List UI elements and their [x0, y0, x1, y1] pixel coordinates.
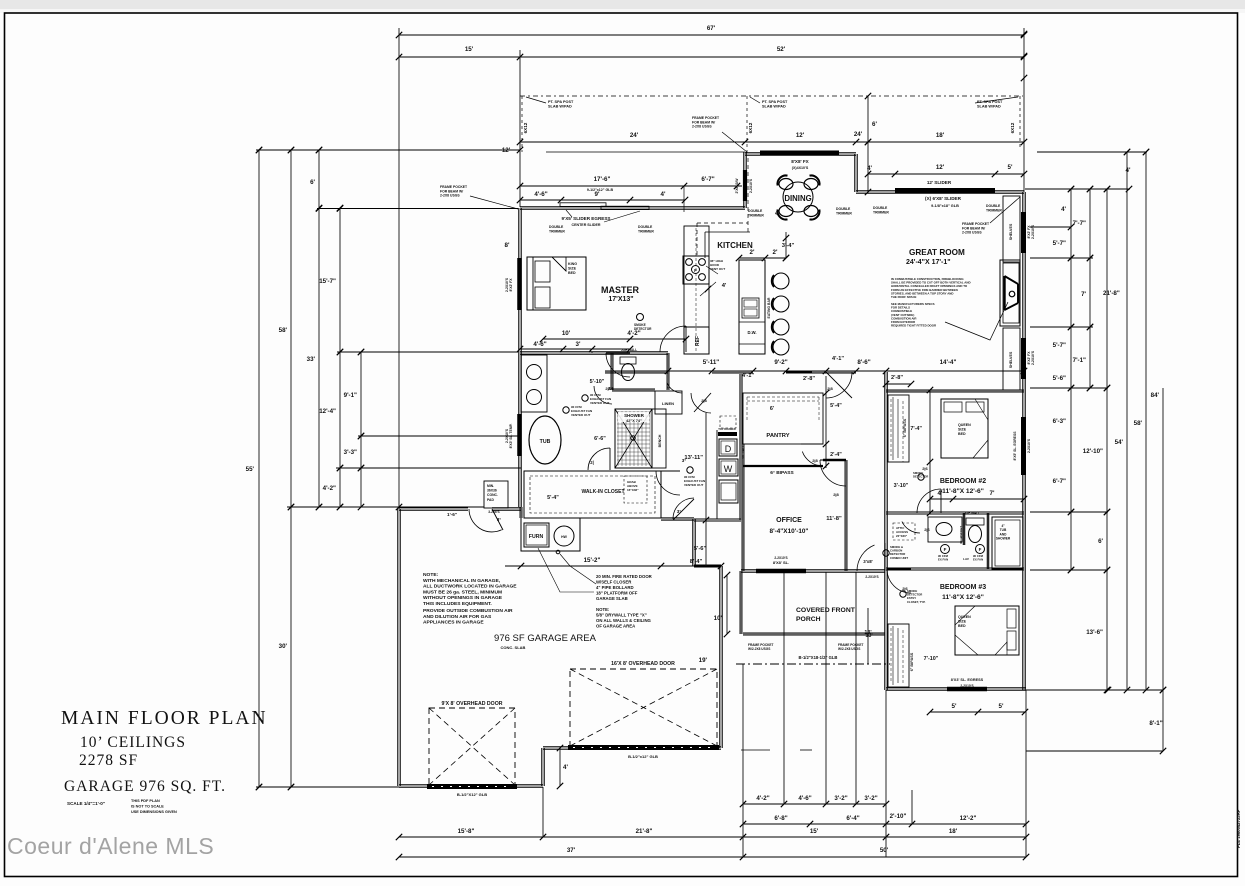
right dim extension y327 [1030, 326, 1093, 328]
svg-text:6° BIPASS: 6° BIPASS [903, 418, 907, 437]
svg-text:3-2X6'S: 3-2X6'S [488, 510, 499, 514]
svg-text:5'-6": 5'-6" [694, 546, 707, 552]
svg-text:5'-11": 5'-11" [703, 359, 720, 366]
garage house wall east of closet [693, 519, 695, 566]
svg-text:2'-8": 2'-8" [891, 375, 903, 381]
porch steps [741, 749, 770, 751]
left dim extension y468 [336, 467, 521, 469]
svg-text:8': 8' [505, 242, 510, 249]
garage step wall [542, 748, 544, 786]
dim 7-4 bed2 [929, 390, 931, 513]
left dim 58 ft / 30 ft [290, 150, 292, 787]
fireplace [1000, 260, 1020, 326]
svg-text:MUST BE 26 ga. STEEL, MINI: MUST BE 26 ga. STEEL, MINIMUM [423, 589, 502, 595]
right dim extension y189 [1025, 188, 1130, 190]
svg-text:9'X 8' OVERHEAD DOOR: 9'X 8' OVERHEAD DOOR [442, 701, 503, 707]
svg-text:4': 4' [1061, 206, 1066, 213]
svg-text:PLE 1960042723AP: PLE 1960042723AP [1236, 809, 1241, 848]
svg-text:7': 7' [1081, 291, 1086, 298]
queen bed 2 [941, 399, 988, 458]
svg-text:24'-4"X 17'-1": 24'-4"X 17'-1" [906, 259, 951, 266]
svg-text:11'-8"X 12'-6": 11'-8"X 12'-6" [942, 488, 984, 495]
svg-text:KING: KING [568, 262, 577, 266]
dim 13-11 laundry [705, 413, 707, 566]
right dim col 1163 84ft [1162, 388, 1164, 751]
svg-text:4': 4' [938, 490, 943, 497]
hall door arc bed wing [826, 372, 852, 398]
svg-text:WALK-IN CLOSET: WALK-IN CLOSET [581, 489, 624, 495]
svg-text:1'-6": 1'-6" [447, 512, 457, 517]
svg-text:HW: HW [561, 535, 567, 539]
bottom porch dims row1 [743, 803, 886, 805]
overhead door 9x8 [429, 708, 515, 785]
svg-text:NOTE:: NOTE: [423, 572, 439, 578]
svg-text:7'-1": 7'-1" [1073, 357, 1086, 364]
svg-text:THIS INCLUDES EQUIPMENT.: THIS INCLUDES EQUIPMENT. [423, 601, 492, 607]
right dim extension y690 [1026, 689, 1163, 691]
svg-text:BEDROOM #3: BEDROOM #3 [940, 584, 986, 591]
svg-text:58': 58' [279, 327, 288, 334]
svg-text:DINING: DINING [784, 194, 811, 203]
svg-text:LAV: LAV [963, 557, 969, 561]
svg-text:6° BIPASS: 6° BIPASS [910, 652, 914, 671]
svg-text:PANTRY: PANTRY [766, 433, 789, 439]
svg-text:6X12: 6X12 [523, 122, 528, 133]
right dim col 1107 [1106, 189, 1108, 690]
dim 2-8 bed2 north [886, 383, 911, 385]
garage north wall [399, 508, 468, 510]
king bed [527, 257, 586, 310]
svg-text:4'-6": 4'-6" [798, 795, 811, 802]
window 9x5 slider master rear [560, 203, 606, 207]
svg-text:12'-10": 12'-10" [1083, 448, 1103, 455]
svg-text:9-1/8"x18" GLB: 9-1/8"x18" GLB [931, 204, 959, 208]
closet entry door [656, 471, 680, 495]
svg-text:GREAT ROOM: GREAT ROOM [909, 248, 965, 257]
svg-text:SIZE: SIZE [958, 620, 967, 624]
svg-text:5': 5' [1008, 164, 1013, 171]
svg-text:8'X8' FX: 8'X8' FX [791, 159, 809, 164]
window 8x5 egress bed2 [1021, 417, 1026, 475]
svg-text:Coeur d'Alene MLS: Coeur d'Alene MLS [7, 833, 214, 859]
svg-text:3'-10": 3'-10" [894, 483, 909, 489]
svg-text:12': 12' [936, 164, 945, 171]
laundry upper dashes [720, 416, 736, 428]
garage service door [469, 509, 502, 532]
svg-text:21'-8": 21'-8" [636, 828, 653, 835]
svg-text:12' SLIDER: 12' SLIDER [927, 180, 952, 185]
svg-text:6X12: 6X12 [1010, 122, 1015, 133]
svg-text:THIS PDF PLAN: THIS PDF PLAN [131, 799, 160, 803]
smoke detector master [637, 314, 644, 321]
window kitchen jog [743, 170, 747, 201]
svg-text:8'X5' SL. EGRESS: 8'X5' SL. EGRESS [1013, 431, 1017, 461]
svg-text:COVERED FRONT: COVERED FRONT [796, 607, 856, 614]
wall closet outline [524, 471, 661, 518]
svg-text:20 MIN. FIRE RATED DOOR: 20 MIN. FIRE RATED DOOR [596, 574, 653, 579]
svg-text:SHOWER: SHOWER [996, 537, 1011, 541]
window 8x2 fx master west [517, 258, 522, 310]
window 8x8 fx dining [760, 151, 839, 156]
porch beam dashdot [736, 663, 890, 665]
master entry door [660, 326, 686, 352]
svg-text:2-2X10'S: 2-2X10'S [1031, 224, 1035, 239]
right dim extension y512 [1030, 511, 1108, 513]
office walls [742, 444, 744, 571]
eave line above master [546, 151, 745, 153]
wall house east [1023, 192, 1025, 690]
dim 4-6 9 4 master windows [520, 199, 685, 201]
svg-text:5'-4": 5'-4" [830, 403, 842, 409]
porch front edge [743, 633, 885, 635]
office door arc [820, 460, 846, 486]
svg-text:GARAGE 976 SQ. FT.: GARAGE 976 SQ. FT. [64, 778, 226, 795]
svg-text:2-2X10'S: 2-2X10'S [505, 277, 509, 292]
wall kitchen east jog [744, 152, 746, 208]
svg-text:ALL DUCTWORK LOCATED IN GA: ALL DUCTWORK LOCATED IN GARAGE [423, 584, 517, 590]
svg-text:4'-1": 4'-1" [742, 373, 754, 379]
office south wall [741, 570, 885, 572]
svg-text:58': 58' [1134, 420, 1143, 427]
dim 4-6 3 master bath [520, 348, 630, 350]
window 8x8 sl office [756, 569, 806, 574]
svg-text:CLOSET, TYP.: CLOSET, TYP. [907, 600, 926, 604]
svg-text:FURN: FURN [529, 534, 544, 540]
dim 4 7 bed2 south [930, 498, 1024, 500]
garage south wall east [543, 747, 721, 749]
left dim extension y787 [256, 786, 399, 788]
svg-text:4'-2": 4'-2" [323, 485, 336, 492]
furnace [524, 523, 549, 547]
toilet room master [611, 353, 613, 390]
svg-text:REQUIRED TIGHT FITTED DOOR: REQUIRED TIGHT FITTED DOOR [891, 324, 937, 328]
svg-text:12'-4": 12'-4" [319, 408, 336, 415]
post 6x12 mid [746, 96, 748, 155]
svg-text:GARAGE SLAB: GARAGE SLAB [596, 596, 628, 601]
bottom porch dims row2 [743, 823, 1026, 825]
dim 10ft porch [726, 575, 728, 634]
fan circles bath2 [941, 545, 950, 554]
svg-text:8'-1": 8'-1" [1149, 720, 1162, 727]
svg-text:21'-8": 21'-8" [1103, 290, 1120, 297]
svg-text:15'-7": 15'-7" [319, 278, 336, 285]
right dim extension y388 [1030, 387, 1108, 389]
svg-text:PROVIDE OUTSIDE COMBUSTION: PROVIDE OUTSIDE COMBUSTION AIR [423, 608, 513, 614]
svg-text:5': 5' [999, 703, 1004, 710]
tub master [529, 416, 561, 464]
svg-text:19': 19' [699, 657, 708, 664]
svg-text:976 SF GARAGE AREA: 976 SF GARAGE AREA [494, 633, 597, 644]
svg-text:CONC. SLAB: CONC. SLAB [501, 645, 526, 650]
bath2 tub [992, 517, 1023, 569]
wall master west [519, 208, 521, 352]
svg-text:15': 15' [465, 46, 474, 53]
bath door gap arc [606, 353, 630, 377]
left dim extension y208 [317, 208, 518, 210]
svg-text:2-2X10'S: 2-2X10'S [1027, 438, 1031, 453]
svg-text:2-2X10'S: 2-2X10'S [749, 178, 753, 193]
window 8x3 sl temp bath west [517, 414, 522, 456]
svg-text:LINEN: LINEN [662, 401, 674, 406]
svg-text:4" PIPE BOLLARD: 4" PIPE BOLLARD [596, 585, 634, 590]
svg-text:7'-10": 7'-10" [924, 656, 939, 662]
svg-text:EX FAN: EX FAN [938, 558, 948, 562]
left dim 9-1 3-3 [360, 352, 362, 507]
bath2 vanity [928, 517, 962, 542]
svg-text:AND DILUTION AIR FOR GAS: AND DILUTION AIR FOR GAS [423, 614, 492, 620]
svg-text:84': 84' [1151, 392, 1160, 399]
svg-text:EATING BAR: EATING BAR [767, 297, 771, 318]
svg-text:2-2X8 USGS: 2-2X8 USGS [962, 231, 982, 235]
svg-text:2|6: 2|6 [922, 466, 928, 471]
extension line garage west [398, 28, 400, 509]
svg-text:4'-6": 4'-6" [534, 191, 547, 198]
svg-text:36X36: 36X36 [487, 489, 497, 493]
page top gray strip [0, 0, 1245, 9]
svg-text:TRIMMER: TRIMMER [986, 208, 1002, 212]
shelves upper greatroom [1003, 196, 1020, 262]
svg-text:17'-6": 17'-6" [594, 176, 611, 183]
fireplace leader [945, 302, 1008, 340]
wall bath north [520, 352, 668, 354]
refrigerator [684, 327, 709, 354]
dim 15-2 furnace row [505, 565, 721, 567]
svg-text:10': 10' [562, 330, 571, 337]
svg-text:4': 4' [1126, 167, 1131, 174]
laundry tub [719, 480, 738, 503]
svg-text:2-2X10'S: 2-2X10'S [1031, 350, 1035, 365]
furnace alcove walls [521, 518, 580, 551]
svg-text:4': 4' [563, 764, 568, 771]
bed3 north wall [886, 568, 1024, 570]
svg-text:TRIMMER: TRIMMER [549, 229, 565, 233]
svg-text:F: F [979, 547, 982, 552]
wall dining rear north [745, 153, 856, 155]
svg-text:BEDROOM #2: BEDROOM #2 [940, 478, 986, 485]
bar stools [773, 273, 789, 289]
svg-text:BENCH: BENCH [658, 434, 662, 447]
svg-text:TRIMMER: TRIMMER [836, 211, 852, 215]
svg-text:8'X3' SL. EGRESS: 8'X3' SL. EGRESS [951, 678, 984, 682]
dim 67 ft overall top [399, 34, 1024, 36]
svg-text:2-2X8 USGS: 2-2X8 USGS [692, 125, 712, 129]
hall dim row [605, 370, 1024, 372]
svg-text:SHELVES: SHELVES [1009, 351, 1013, 368]
window 8x3 egress bed3 [947, 687, 987, 692]
svg-text:TRIMMER: TRIMMER [748, 213, 764, 217]
svg-text:12'-2": 12'-2" [960, 815, 977, 822]
svg-text:THE ROOF SPACE: THE ROOF SPACE [891, 295, 917, 299]
svg-text:6'-3": 6'-3" [1053, 418, 1066, 425]
svg-text:6'-7": 6'-7" [701, 176, 714, 183]
svg-text:JOE WALL: JOE WALL [621, 348, 637, 352]
door porch to bed wing [857, 545, 875, 571]
svg-text:TRIMMER: TRIMMER [873, 210, 889, 214]
svg-text:15'-2": 15'-2" [584, 557, 601, 564]
svg-text:CENTER SLIDER: CENTER SLIDER [572, 223, 601, 227]
bed3 door [887, 569, 911, 593]
bedroom wing west wall [885, 372, 887, 690]
svg-text:7': 7' [990, 490, 995, 497]
left dim extension y507 [287, 506, 484, 508]
svg-text:3'-2": 3'-2" [834, 795, 847, 802]
dim 15 ft top [399, 56, 520, 58]
left dim extension y352 [337, 351, 518, 353]
svg-text:16'X 8' OVERHEAD DOOR: 16'X 8' OVERHEAD DOOR [611, 661, 675, 667]
svg-text:6': 6' [872, 121, 877, 128]
svg-text:W/2-2X8 USGS: W/2-2X8 USGS [748, 647, 770, 651]
island sink [742, 298, 759, 318]
dining table [783, 182, 813, 212]
svg-text:F: F [944, 547, 947, 552]
svg-text:9'-2": 9'-2" [774, 359, 787, 366]
bottom extension lines [542, 787, 544, 837]
svg-text:2|6: 2|6 [605, 387, 610, 391]
svg-text:24': 24' [854, 131, 863, 138]
svg-text:SLAB W/PAD: SLAB W/PAD [977, 105, 1001, 109]
svg-text:5': 5' [952, 703, 957, 710]
garage south wall west [399, 785, 543, 787]
left dim extension y436 [358, 435, 521, 437]
upper cabinet dashed kitchen [697, 222, 748, 224]
svg-text:18': 18' [936, 132, 945, 139]
svg-text:7'-4": 7'-4" [910, 426, 922, 432]
svg-text:APPLIANCES IN GARAGE: APPLIANCES IN GARAGE [423, 620, 484, 626]
post 6x12 right [1019, 96, 1021, 150]
svg-text:33': 33' [307, 356, 316, 363]
svg-text:EX FAN: EX FAN [973, 558, 983, 562]
svg-text:6'-4": 6'-4" [846, 815, 859, 822]
svg-text:2'-4": 2'-4" [830, 452, 842, 458]
svg-text:(X)4X10'S: (X)4X10'S [792, 166, 809, 170]
wall segment y566 [694, 565, 721, 567]
bottom dims row4 [399, 856, 1026, 858]
kitchen dining dashed divider [747, 158, 749, 232]
right dim 8-1 [1026, 750, 1163, 752]
smoke detector bed3 [900, 591, 906, 597]
pocket door bar hall [786, 371, 812, 374]
svg-text:13'-11": 13'-11" [684, 455, 703, 461]
svg-text:6': 6' [770, 406, 774, 412]
svg-text:4': 4' [867, 165, 872, 172]
svg-text:11'-8": 11'-8" [826, 516, 842, 522]
svg-text:67': 67' [707, 25, 716, 32]
attic access [893, 523, 915, 540]
svg-text:SHELVES: SHELVES [1009, 223, 1013, 240]
svg-text:3°: 3° [497, 517, 501, 522]
svg-text:5'-10": 5'-10" [590, 379, 605, 385]
svg-text:8'X2' FX: 8'X2' FX [509, 278, 513, 292]
washer [719, 459, 738, 476]
conc pad note [484, 481, 508, 508]
wall bath west [519, 352, 521, 507]
svg-text:DETECTOR: DETECTOR [913, 475, 928, 479]
svg-text:24': 24' [630, 132, 639, 139]
svg-text:4'-2": 4'-2" [756, 795, 769, 802]
dim 4ft garage step [559, 748, 561, 786]
svg-text:15': 15' [810, 828, 819, 835]
svg-text:OF GARAGE AREA: OF GARAGE AREA [596, 624, 635, 629]
svg-text:PT. SPA POST: PT. SPA POST [762, 100, 788, 104]
svg-text:54': 54' [1115, 439, 1124, 446]
svg-text:VENTED OUT: VENTED OUT [590, 401, 610, 405]
laundry walls [716, 430, 718, 519]
svg-text:3'x8': 3'x8' [863, 559, 872, 564]
svg-text:18': 18' [949, 828, 958, 835]
svg-text:4': 4' [661, 191, 666, 198]
svg-text:W: W [724, 464, 733, 474]
svg-text:15'-8": 15'-8" [458, 828, 475, 835]
svg-text:42"X 74": 42"X 74" [626, 419, 642, 423]
svg-text:3'-3": 3'-3" [344, 449, 357, 456]
bed2 door [917, 489, 941, 513]
right dim col 1146 58ft [1145, 152, 1147, 690]
svg-text:SCALE 1/4"=1'-0": SCALE 1/4"=1'-0" [67, 801, 105, 806]
svg-text:PT. SPA POST: PT. SPA POST [548, 100, 574, 104]
bath2 door [902, 522, 920, 534]
svg-text:4'-1": 4'-1" [832, 356, 844, 362]
right dim extension y152 [1037, 151, 1147, 153]
svg-text:5'-7": 5'-7" [1053, 240, 1066, 247]
svg-text:D.W.: D.W. [747, 330, 756, 335]
shelves lower greatroom [1003, 328, 1020, 390]
porch west wall [740, 571, 742, 634]
svg-text:SIZE: SIZE [958, 428, 967, 432]
water heater [554, 526, 574, 546]
dim 17-6 master [520, 185, 742, 187]
svg-text:2-2X10'S: 2-2X10'S [960, 684, 973, 688]
svg-text:IS NOT TO SCALE: IS NOT TO SCALE [131, 805, 164, 809]
kitchen island [739, 260, 765, 354]
svg-text:30" POCKET: 30" POCKET [959, 526, 963, 544]
window 12ft slider greatroom [895, 188, 995, 193]
svg-text:13'-6": 13'-6" [1086, 629, 1103, 636]
svg-text:5/8" DRYWALL TYPE "X": 5/8" DRYWALL TYPE "X" [596, 613, 647, 618]
svg-text:8'X8' SL.: 8'X8' SL. [773, 560, 789, 565]
svg-text:3°: 3° [677, 509, 682, 514]
bipass door office closet [743, 465, 823, 467]
svg-text:22"X30": 22"X30" [896, 534, 908, 538]
left dim 6ft 33ft [318, 150, 320, 507]
svg-text:14'-4": 14'-4" [940, 359, 957, 366]
svg-text:17'X13": 17'X13" [608, 296, 633, 303]
svg-text:VENTED OUT: VENTED OUT [571, 413, 591, 417]
window 8x2 fx lower [1021, 338, 1026, 379]
smoke carbon note [883, 550, 889, 556]
toilet room door arc [594, 386, 612, 404]
svg-text:12': 12' [502, 147, 511, 154]
svg-text:9-1/2"x12" GLB: 9-1/2"x12" GLB [587, 188, 614, 192]
svg-text:QUEEN: QUEEN [958, 615, 971, 619]
bath closet door arc [588, 448, 610, 470]
svg-text:TOP DRAWER: TOP DRAWER [718, 427, 736, 431]
svg-text:MAIN FLOOR PLAN: MAIN FLOOR PLAN [61, 708, 268, 729]
bed3 south wall [886, 688, 1026, 690]
svg-text:3': 3' [576, 341, 581, 348]
wall greatroom rear north [856, 191, 1024, 193]
bedroom2 north wall [886, 390, 1024, 392]
svg-text:4': 4' [775, 211, 779, 217]
right dim col 1070 [1070, 189, 1072, 570]
fan laundry [687, 467, 693, 473]
svg-text:5'-7": 5'-7" [1053, 342, 1066, 349]
svg-text:8'-4": 8'-4" [690, 559, 703, 565]
patio cover dashed line rear [520, 95, 1023, 97]
svg-text:2|8: 2|8 [812, 458, 818, 463]
dim row y142 24-12-24-18 [520, 141, 1024, 143]
left dim extension y150 [256, 149, 520, 151]
svg-text:2'-8": 2'-8" [803, 376, 815, 382]
